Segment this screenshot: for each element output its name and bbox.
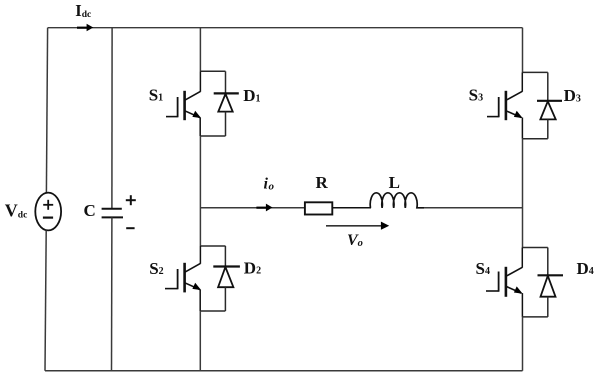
wire S1/D1 bottom connecting jog — [200, 135, 225, 137]
wire output node to resistor — [200, 207, 304, 209]
transistor S1 (IGBT) — [166, 71, 201, 136]
wire S4/D4 top connecting jog — [523, 247, 548, 249]
wire left rail lower segment — [45, 230, 46, 370]
voltage source Vdc — [35, 193, 61, 231]
wire left leg bottom segment — [199, 311, 201, 371]
svg-text:C: C — [84, 201, 96, 220]
svg-text:L: L — [389, 173, 400, 192]
wire S3/D3 bottom connecting jog — [522, 138, 547, 140]
wire top DC rail — [48, 27, 523, 29]
diode D1 — [214, 71, 239, 136]
wire inductor to right leg — [424, 207, 523, 209]
wire right leg top (rail to S3 collector) — [522, 28, 524, 73]
wire left rail upper segment — [46, 28, 47, 193]
transistor S2 (IGBT) — [165, 246, 201, 311]
capacitor C — [102, 209, 123, 218]
wire capacitor branch upper segment — [111, 28, 113, 209]
diode D4 — [538, 248, 564, 317]
wire resistor to inductor — [332, 207, 371, 209]
wire S4/D4 bottom connecting jog — [522, 316, 547, 318]
wire S2/D2 bottom connecting jog — [200, 310, 225, 312]
wire S2/D2 top connecting jog — [200, 245, 225, 247]
capacitor polarity plus — [126, 195, 136, 205]
wire left leg middle segment (through output node) — [199, 136, 201, 246]
transistor S4 (IGBT) — [486, 248, 523, 317]
wire capacitor branch lower segment — [111, 217, 113, 370]
wire left leg top (rail to S1 collector) — [199, 28, 201, 72]
wire S3/D3 top connecting jog — [523, 71, 548, 73]
arrow Vo output voltage reference — [326, 222, 389, 230]
diode D2 — [213, 246, 240, 311]
wire S1/D1 top connecting jog — [200, 70, 225, 72]
wire right leg middle segment (through output node) — [522, 139, 524, 248]
diode D3 — [537, 72, 562, 138]
arrow io output current — [256, 204, 272, 212]
inductor L — [370, 193, 424, 208]
capacitor polarity minus — [126, 227, 134, 229]
wire bottom DC rail — [45, 370, 523, 372]
resistor R — [305, 202, 332, 214]
wire right leg bottom segment — [522, 317, 524, 371]
arrow Idc current direction on top rail — [77, 24, 93, 32]
svg-text:R: R — [316, 173, 329, 192]
transistor S3 (IGBT) — [487, 72, 523, 138]
